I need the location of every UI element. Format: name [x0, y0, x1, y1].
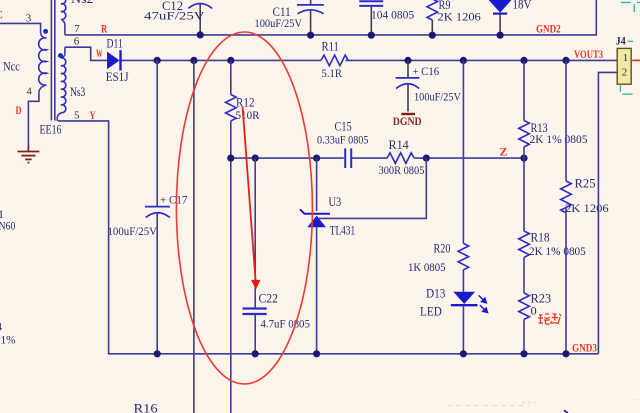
resistor R23 0 (jumper) [519, 257, 551, 353]
svg-text:R25: R25 [575, 176, 596, 190]
annotation: red ellipse [176, 32, 312, 384]
node: W rail junction mid line [190, 57, 197, 64]
svg-text:C: C [0, 8, 3, 22]
svg-text:4.7uF 0805: 4.7uF 0805 [261, 317, 310, 331]
capacitor C11 100uF/25V [255, 0, 324, 35]
svg-text:100uF/25V: 100uF/25V [108, 224, 158, 238]
capacitor C17 100uF/25V [108, 60, 188, 353]
transformer winding Ncc (primary aux) [0, 23, 44, 37]
svg-text:1K 0805: 1K 0805 [408, 260, 446, 274]
node: bottom rail junction C17 [154, 350, 161, 357]
node: R9 junction [429, 32, 436, 39]
zener diode 18V [489, 0, 532, 35]
svg-text:R16: R16 [134, 402, 158, 413]
resistor R25 2K 1206 [561, 60, 609, 353]
node: Z rail junction R12 [227, 155, 234, 162]
wire: R12 line continues to bottom edge [230, 158, 232, 413]
svg-text:TL431: TL431 [330, 223, 355, 237]
resistor R14 300R 0805 [379, 138, 425, 177]
svg-text:2K 1% 0805: 2K 1% 0805 [529, 244, 586, 258]
faint artifacts bottom [447, 400, 640, 406]
svg-text:N60: N60 [0, 219, 16, 233]
svg-text:2: 2 [622, 67, 628, 79]
svg-text:Z: Z [500, 144, 508, 158]
node: Z rail junction C22 [252, 155, 259, 162]
svg-text:Ns3: Ns3 [70, 85, 85, 99]
svg-text:0.33uF 0805: 0.33uF 0805 [317, 133, 369, 147]
diode D11 ES1J [106, 36, 129, 83]
capacitor C16 100uF/25V [396, 60, 462, 111]
connector J4 [598, 36, 640, 354]
node: W rail junction R12 [227, 57, 234, 64]
svg-text:DGND: DGND [393, 114, 422, 128]
svg-text:100uF/25V: 100uF/25V [255, 16, 303, 30]
resistor R20 1K 0805 [408, 60, 469, 291]
svg-text:104 0805: 104 0805 [371, 8, 414, 22]
svg-text:ES1J: ES1J [106, 70, 129, 84]
svg-text:18V: 18V [513, 0, 532, 12]
svg-text:LED: LED [420, 305, 442, 319]
resistor R13 2K 1% 0805 [519, 60, 588, 158]
wire: Z rail left part [231, 157, 344, 159]
wire: feedback from Z rail down-left to TL431 ref [319, 158, 426, 218]
transformer winding Ns2 (top secondary) [61, 0, 66, 20]
svg-text:GND2: GND2 [536, 21, 561, 35]
svg-text:3: 3 [26, 12, 32, 24]
svg-text:Ncc: Ncc [3, 60, 20, 74]
svg-text:GND3: GND3 [572, 341, 597, 355]
node: bottom rail junction D13 [460, 350, 467, 357]
node: VOUT3 junction R13 [520, 57, 527, 64]
node: W rail junction C17 [154, 57, 161, 64]
wire: mid vertical line x=194 [193, 60, 195, 413]
wire: Z rail C15 to R14 [351, 157, 387, 159]
node: bottom rail junction R23 [520, 350, 527, 357]
transformer winding Ns3 (bottom secondary) [62, 47, 65, 58]
wire: pin6 jog to D11 [65, 47, 107, 60]
svg-text:+ C17: + C17 [160, 193, 187, 207]
svg-text:VOUT3: VOUT3 [574, 47, 603, 61]
wire: Y net / bottom GND3 rail [58, 121, 598, 354]
node: bottom rail junction TL431 [313, 350, 320, 357]
node: bottom rail junction C22 [252, 350, 259, 357]
node: Z rail junction R13/R18 [520, 155, 527, 162]
capacitor C22 4.7uF 0805 [243, 158, 310, 354]
svg-text:Y: Y [90, 108, 96, 122]
node: VOUT3 junction R20 [460, 57, 467, 64]
svg-text:2K 1206: 2K 1206 [438, 9, 481, 23]
resistor R11 5.1R (horizontal) [321, 40, 348, 80]
svg-text:R: R [101, 22, 108, 36]
node: C11 junction [307, 32, 314, 39]
svg-text:D11: D11 [107, 36, 123, 50]
node: C12 junction [197, 31, 204, 38]
svg-text:R11: R11 [322, 40, 339, 54]
svg-text:300R 0805: 300R 0805 [379, 163, 425, 177]
node: 104 junction [368, 32, 375, 39]
svg-text:U3: U3 [329, 195, 342, 209]
wire: R / GND2 top rail [65, 0, 596, 35]
svg-text:5: 5 [74, 109, 80, 121]
resistor R9 2K 1206 [427, 0, 481, 35]
svg-text:100uF/25V: 100uF/25V [414, 90, 461, 104]
ground DGND (power port) [393, 114, 422, 128]
node: VOUT3 junction C16 [404, 57, 411, 64]
svg-text:W: W [96, 46, 103, 60]
node: Z rail junction TL431 [313, 155, 320, 162]
svg-text:D13: D13 [426, 287, 445, 301]
svg-text:4: 4 [26, 85, 32, 97]
capacitor C104 104 0805 [359, 1, 414, 35]
svg-text:2K 1206: 2K 1206 [565, 201, 609, 215]
svg-text:2K 1% 0805: 2K 1% 0805 [530, 132, 588, 146]
svg-text:C22: C22 [259, 291, 278, 305]
node: zener junction [497, 32, 504, 39]
svg-text:1: 1 [623, 52, 629, 64]
LED D13 [420, 287, 488, 354]
svg-text:Ns2: Ns2 [71, 0, 94, 6]
svg-text:5.1R: 5.1R [322, 66, 343, 80]
node: bottom rail junction R25 [562, 350, 569, 357]
small blue mark bottom right [564, 410, 568, 413]
op-amp U3 TL431 [300, 158, 355, 354]
capacitor C12 47uF/25V (top plate clipped) [144, 0, 212, 35]
wire: VOUT3 rail from R11 to J4 pin1 [346, 59, 618, 61]
node: Ncc polarity dot [43, 29, 48, 34]
capacitor C15 0.33uF 0805 [317, 120, 369, 168]
node: Ns3 polarity dot [58, 53, 63, 58]
node: VOUT3 junction R25 [562, 57, 569, 64]
svg-text:R14: R14 [389, 138, 410, 152]
resistor R12 510R [226, 60, 260, 158]
selection marks (teal dashes near J4) [620, 2, 640, 94]
svg-text:D: D [16, 103, 22, 117]
svg-text:47uF/25V: 47uF/25V [144, 9, 205, 23]
ground (transformer pin 4 / D net) [17, 146, 39, 163]
resistor R18 2K 1% 0805 [519, 158, 586, 258]
svg-text:1%: 1% [1, 332, 16, 346]
wire: W rail from D11 to R11 [122, 59, 322, 61]
svg-text:C15: C15 [335, 120, 352, 134]
wire: Z rail R14 to R13 junction [415, 157, 525, 159]
label 锡连 (solder-join, red CJK approximation) [538, 314, 561, 324]
svg-text:J4: J4 [616, 36, 626, 48]
svg-text:510R: 510R [236, 108, 260, 122]
transformer T EE16 core [51, 0, 54, 121]
svg-text:EE16: EE16 [40, 123, 62, 137]
annotation: red arrow to C22 [243, 107, 261, 290]
svg-text:7: 7 [74, 23, 80, 35]
wire pin7 to rail [62, 21, 65, 35]
node: Z rail junction feedback [423, 155, 430, 162]
svg-text:+ C16: + C16 [413, 64, 440, 78]
svg-text:0: 0 [531, 303, 537, 317]
svg-text:6: 6 [74, 35, 80, 47]
svg-text:R18: R18 [531, 231, 550, 245]
svg-text:R20: R20 [434, 242, 451, 256]
